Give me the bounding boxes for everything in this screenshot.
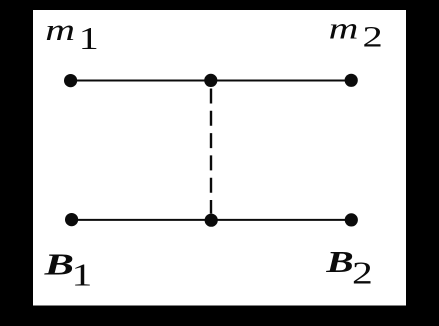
svg-text:B: B [43, 248, 74, 282]
label B1 [43, 248, 92, 294]
svg-text:2: 2 [363, 20, 383, 54]
label B2 [325, 245, 373, 292]
node B1 (bottom-left dot) [65, 213, 78, 226]
svg-text:2: 2 [352, 256, 373, 291]
wire: top horizontal line m1-m2 [71, 80, 352, 82]
node m2 (top-right dot) [345, 74, 358, 87]
wire: dashed vertical link [210, 89, 212, 214]
node top-middle dot [204, 74, 217, 87]
svg-text:1: 1 [72, 258, 93, 293]
node bottom-middle dot [205, 214, 218, 227]
wire: bottom horizontal line B1-B2 [72, 219, 352, 221]
label m2 [329, 11, 383, 53]
svg-text:1: 1 [79, 21, 99, 56]
node m1 (top-left dot) [64, 74, 77, 87]
node B2 (bottom-right dot) [345, 213, 358, 226]
svg-text:m: m [329, 11, 359, 45]
svg-text:m: m [45, 13, 75, 47]
svg-text:B: B [325, 245, 353, 279]
label m1 [45, 13, 99, 56]
white figure panel [33, 10, 406, 306]
